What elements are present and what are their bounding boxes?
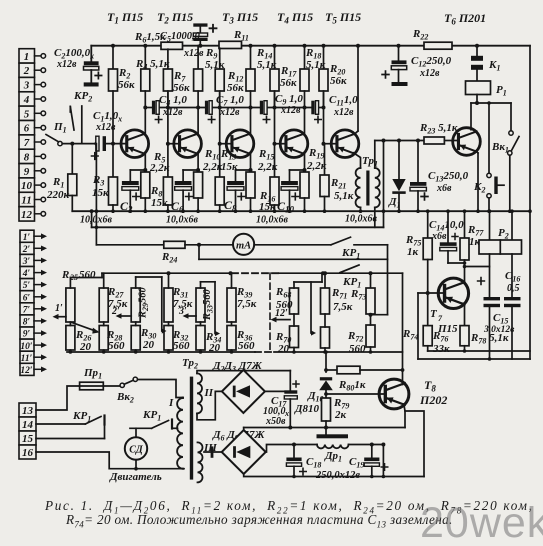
capacitor C16 0.5 xyxy=(511,254,513,297)
resistor R70 20 xyxy=(290,326,299,348)
diode D1 xyxy=(398,141,400,180)
resistor R27 7,5к xyxy=(99,288,108,322)
svg-text:Д2Д3 Д7Ж: Д2Д3 Д7Ж xyxy=(212,360,263,374)
svg-text:Др1: Др1 xyxy=(324,450,342,464)
caption line 2 xyxy=(66,512,453,530)
wire: T7 collector xyxy=(464,260,466,283)
motor SD xyxy=(135,428,137,437)
svg-text:II: II xyxy=(204,387,214,399)
svg-text:Вк2: Вк2 xyxy=(116,391,134,405)
wire: emitter xyxy=(304,154,306,170)
svg-text:Т3 П15: Т3 П15 xyxy=(222,10,258,26)
svg-text:х6в: х6в xyxy=(431,231,447,242)
wire: matrix bottom bus xyxy=(67,351,255,353)
svg-text:C15: C15 xyxy=(493,312,508,326)
svg-text:10: 10 xyxy=(21,180,33,192)
resistor R18 5,1к xyxy=(304,46,306,69)
wire: bridge III top to filter line xyxy=(243,428,245,431)
wire: meter to KP1 contact xyxy=(254,244,331,246)
wire: II winding bottom to bridge left xyxy=(197,391,222,419)
svg-text:3′: 3′ xyxy=(22,257,31,267)
node: base divider T1 xyxy=(111,142,115,146)
Tr2 secondary II xyxy=(197,373,202,413)
wire: R24 to meter xyxy=(185,244,233,246)
wire: T6 collector xyxy=(470,103,472,130)
svg-text:C19: C19 xyxy=(349,456,364,470)
svg-text:C51000,0: C51000,0 xyxy=(160,31,201,44)
svg-text:13: 13 xyxy=(22,405,34,417)
svg-text:КР1: КР1 xyxy=(142,409,161,423)
wire: emitter xyxy=(250,154,252,170)
wire: T5 emitter to Tr1 primary xyxy=(354,153,361,168)
capacitor C17 100.0x50v xyxy=(289,371,291,391)
wire: terminal 16 to motor return xyxy=(36,452,184,469)
svg-text:R11: R11 xyxy=(233,29,249,43)
svg-text:5,1к: 5,1к xyxy=(205,59,225,71)
wire: right border xyxy=(529,46,531,359)
svg-text:К1: К1 xyxy=(488,59,500,73)
contact K2 xyxy=(488,103,490,173)
capacitor C14 10.0x6v xyxy=(447,211,449,242)
svg-text:4′: 4′ xyxy=(22,269,31,279)
svg-text:3,0х12в: 3,0х12в xyxy=(483,325,515,335)
svg-text:7: 7 xyxy=(438,314,443,323)
svg-text:Т6 П201: Т6 П201 xyxy=(444,11,486,27)
svg-text:Д810: Д810 xyxy=(294,403,320,415)
svg-text:15к: 15к xyxy=(221,161,238,173)
wire: R69 zigzag tap to R72 xyxy=(310,282,312,333)
choke Dr1 xyxy=(317,434,349,438)
wire: R29 zigzag tap xyxy=(135,277,137,288)
svg-text:2: 2 xyxy=(23,65,30,77)
resistor R33 560 xyxy=(196,288,205,322)
capacitor C15 3.0x12v xyxy=(489,254,491,297)
svg-text:0,5: 0,5 xyxy=(507,283,520,294)
svg-text:3: 3 xyxy=(23,80,30,92)
svg-text:560: 560 xyxy=(238,340,255,352)
zener D10 D810 xyxy=(325,352,327,372)
svg-text:C7 1,0: C7 1,0 xyxy=(216,94,244,108)
resistor R23 5.1k xyxy=(424,137,444,144)
wire: Vk2 to Tr2 primary xyxy=(138,380,183,398)
resistor R22 xyxy=(424,42,452,49)
resistor R25 560 xyxy=(66,288,75,322)
svg-text:2,2к: 2,2к xyxy=(257,161,278,173)
svg-text:1′: 1′ xyxy=(23,233,31,243)
wire: emitter bypass branch xyxy=(290,169,305,171)
svg-text:C6: C6 xyxy=(171,199,184,215)
svg-text:8: 8 xyxy=(24,151,30,163)
svg-text:Р2: Р2 xyxy=(498,227,509,241)
wire: long rail 2 xyxy=(92,226,384,228)
resistor R36 560 xyxy=(227,326,236,351)
svg-text:П15: П15 xyxy=(437,323,458,335)
svg-text:56к: 56к xyxy=(280,77,297,89)
capacitor C2 xyxy=(54,47,102,87)
tap 12' xyxy=(276,319,290,321)
wire: meter feed drop xyxy=(95,144,97,245)
svg-text:560: 560 xyxy=(349,343,366,355)
svg-text:10′: 10′ xyxy=(20,342,33,352)
wire: collector xyxy=(144,91,146,134)
svg-text:C12250,0: C12250,0 xyxy=(411,55,452,69)
svg-text:8′: 8′ xyxy=(23,318,31,328)
relay contact K1 xyxy=(476,46,478,57)
svg-text:Т1 П15: Т1 П15 xyxy=(107,10,143,26)
capacitor C13 250.0x6v xyxy=(417,141,419,183)
wire: choke output xyxy=(349,444,384,446)
svg-text:7: 7 xyxy=(24,137,30,149)
wire: P1 bottom node xyxy=(476,95,478,104)
svg-text:6′: 6′ xyxy=(23,293,31,303)
resistor R76 33k xyxy=(427,293,429,326)
resistor R79 2k xyxy=(322,398,331,421)
transistor T5 P15 xyxy=(331,130,359,158)
transistor T2 P15 xyxy=(174,130,202,158)
wire: R33 zigzag tap xyxy=(200,282,202,288)
caption line 1 xyxy=(45,498,534,516)
dashed block boundary xyxy=(269,273,271,352)
svg-text:КР2: КР2 xyxy=(73,90,92,104)
svg-text:К2: К2 xyxy=(473,181,485,195)
transistor T3 P15 xyxy=(226,130,254,158)
svg-text:14: 14 xyxy=(22,419,34,431)
resistor R12 56к xyxy=(219,48,221,69)
tap 2' xyxy=(121,315,131,317)
wire: R69 top link xyxy=(293,282,295,288)
wire: lower measurement bus xyxy=(198,245,200,259)
svg-text:R21: R21 xyxy=(330,177,346,191)
wire: T7 emitter to R78 xyxy=(463,304,465,306)
resistor R7 56к xyxy=(167,49,169,69)
wire: T8 emitter xyxy=(404,404,405,428)
svg-text:2,2к: 2,2к xyxy=(306,160,327,172)
svg-text:СД: СД xyxy=(129,445,144,456)
svg-text:R19: R19 xyxy=(308,147,324,161)
svg-text:15к: 15к xyxy=(259,201,276,213)
svg-text:5′: 5′ xyxy=(23,281,31,291)
svg-text:R74: R74 xyxy=(402,328,418,342)
svg-text:5,1к: 5,1к xyxy=(306,59,326,71)
wire: base xyxy=(168,143,178,145)
resistor R8 15к xyxy=(167,144,169,177)
wire: emitter xyxy=(197,154,199,170)
wire: T7 bottom bus xyxy=(428,350,530,352)
wire: link down to measurement bus xyxy=(387,245,389,315)
resistor R14 5,1к xyxy=(250,46,252,69)
svg-text:х12в: х12в xyxy=(56,59,77,70)
svg-text:20: 20 xyxy=(208,342,221,354)
svg-text:R23 5,1к: R23 5,1к xyxy=(419,122,458,136)
watermark xyxy=(420,499,543,546)
svg-text:Т4 П15: Т4 П15 xyxy=(277,10,313,26)
svg-text:7,5к: 7,5к xyxy=(237,298,257,310)
resistor R9 5,1к xyxy=(197,46,199,69)
resistor R28 560 xyxy=(99,326,108,351)
svg-text:11: 11 xyxy=(21,195,31,207)
svg-text:5: 5 xyxy=(24,108,30,120)
capacitor C7 1.0x12v xyxy=(205,101,208,115)
resistor R4 5,1к xyxy=(144,46,146,69)
resistor R34 20 xyxy=(196,326,205,351)
wire: base xyxy=(275,143,285,145)
wire: emitter bypass branch xyxy=(130,169,145,171)
resistor R72 560 xyxy=(321,327,330,348)
svg-text:56к: 56к xyxy=(330,75,347,87)
wire: collector xyxy=(197,91,199,134)
connector X2 terminals 1'-12' xyxy=(20,230,34,375)
svg-text:10,0х6в: 10,0х6в xyxy=(256,215,289,226)
svg-text:П202: П202 xyxy=(419,393,447,407)
Tr2 core xyxy=(190,377,193,480)
wire: collector xyxy=(250,91,252,134)
Tr2 secondary III xyxy=(198,442,203,482)
wire: input line to C1 xyxy=(62,143,95,145)
svg-text:х50в: х50в xyxy=(265,416,286,427)
wire: Tr1 primary bottom to rail1 xyxy=(360,207,362,211)
resistor R16 15к xyxy=(274,144,276,177)
svg-text:20: 20 xyxy=(79,341,92,353)
svg-text:тА: тА xyxy=(236,240,251,251)
rail junction nodes xyxy=(111,44,115,48)
svg-text:х12в: х12в xyxy=(280,105,301,116)
resistor R21 5.1k (T5 base divider) xyxy=(324,144,326,175)
resistor R69 560 xyxy=(290,288,299,314)
capacitor C6 10.0x6v xyxy=(175,181,192,185)
svg-text:C10: C10 xyxy=(277,199,295,215)
wire: regulator node line xyxy=(244,427,405,429)
capacitor C12 250.0x12v xyxy=(398,46,400,61)
capacitor C8 10.0x6v xyxy=(227,181,244,185)
svg-text:4: 4 xyxy=(23,94,30,106)
resistor R11 xyxy=(219,41,242,48)
resistor R13 15к xyxy=(219,144,221,177)
svg-text:2к: 2к xyxy=(334,409,347,421)
wire: matrix top bus dashed section xyxy=(232,272,279,274)
wire: lower return bus xyxy=(418,358,530,360)
wire: base xyxy=(220,143,231,145)
wire: C2 top stub xyxy=(90,46,92,62)
resistor R31 7,5к xyxy=(164,288,173,322)
transistor T6 P201 xyxy=(453,128,481,156)
capacitor C18 xyxy=(293,445,295,458)
svg-text:R: R xyxy=(61,269,69,281)
svg-text:C13250,0: C13250,0 xyxy=(428,170,469,184)
svg-text:I: I xyxy=(168,397,174,409)
resistor R74 xyxy=(366,325,375,347)
svg-text:10,0х6в: 10,0х6в xyxy=(345,214,378,225)
wire: T6 emitter xyxy=(476,151,478,153)
wire: R73/R74 node to KP1 riser xyxy=(369,313,373,317)
svg-text:R29560: R29560 xyxy=(138,286,151,319)
resistor R10 2,2к xyxy=(197,170,199,172)
svg-text:15к: 15к xyxy=(92,187,109,199)
tap 1' xyxy=(58,316,66,318)
svg-text:33к: 33к xyxy=(432,343,450,355)
wire: II winding top to C17 xyxy=(197,371,290,374)
capacitor C4 1.0x12v xyxy=(152,101,155,115)
svg-text:Вк1: Вк1 xyxy=(491,141,509,155)
tap 3' xyxy=(188,315,196,317)
wire: T5 collector to rail xyxy=(357,46,359,131)
svg-text:R72: R72 xyxy=(347,330,363,344)
svg-text:2′: 2′ xyxy=(22,245,31,255)
wire: rail2 riser xyxy=(383,141,385,228)
resistor R39 7,5к xyxy=(227,288,236,322)
resistor R20 56к xyxy=(323,46,325,69)
wire: T8 base xyxy=(326,393,384,395)
wire: Tr1 secondary bottom to rail2 xyxy=(374,207,376,227)
svg-text:R4 5,1к: R4 5,1к xyxy=(135,58,170,72)
svg-text:560: 560 xyxy=(108,340,125,352)
svg-text:C18: C18 xyxy=(306,456,321,470)
capacitor C10 10.0x6v xyxy=(281,181,298,185)
svg-text:560: 560 xyxy=(79,269,96,281)
svg-text:1: 1 xyxy=(24,51,30,63)
switch Vk2 xyxy=(103,385,120,387)
capacitor C19 xyxy=(371,445,373,458)
wire: base xyxy=(324,143,336,145)
connector X1 terminals 1-12 xyxy=(19,49,35,221)
wire: supply top rail xyxy=(91,45,530,47)
resistor R6 1.5k xyxy=(161,42,183,49)
resistor R80 1k xyxy=(326,369,337,371)
svg-text:Т8: Т8 xyxy=(424,378,436,394)
svg-text:5,1к: 5,1к xyxy=(334,190,354,202)
svg-text:Тр2: Тр2 xyxy=(182,357,198,371)
resistor R5 2,2к xyxy=(144,170,146,172)
relay coil P2 xyxy=(489,211,491,240)
svg-text:R801к: R801к xyxy=(338,379,366,393)
svg-text:Т: Т xyxy=(430,308,438,320)
wire: T8 collector riser xyxy=(402,273,404,384)
capacitor C3 10.0x6v xyxy=(122,181,139,185)
wire: rail1-rail2 link xyxy=(91,211,93,227)
svg-text:R3: R3 xyxy=(92,174,104,188)
svg-text:R1: R1 xyxy=(52,176,64,190)
resistor R30 20 xyxy=(131,326,140,351)
svg-text:560: 560 xyxy=(276,299,293,311)
svg-text:х12в: х12в xyxy=(419,68,440,79)
svg-text:7,5к: 7,5к xyxy=(108,298,128,310)
svg-text:R71: R71 xyxy=(331,287,347,301)
wire: common rail 1 (emitter/ground rail) xyxy=(72,210,530,212)
svg-text:R24: R24 xyxy=(161,251,177,265)
resistor R26 20 xyxy=(66,326,75,351)
svg-text:250,0х12в: 250,0х12в xyxy=(315,470,360,481)
transistor T8 P202 xyxy=(379,379,409,409)
svg-text:9′: 9′ xyxy=(23,330,31,340)
fuse Pr1 xyxy=(80,382,104,390)
switch Vk1 xyxy=(510,103,512,131)
transistor T7 P15 xyxy=(438,278,468,308)
switch contact KP1 (meter line) xyxy=(331,237,351,245)
wire: T7 left return xyxy=(417,293,419,359)
svg-text:КР1: КР1 xyxy=(72,410,91,424)
resistor R75 1k xyxy=(427,211,429,238)
svg-text:16: 16 xyxy=(22,447,34,459)
wire: III winding to bridge left with diode bar xyxy=(204,451,222,453)
switch contact KP1 (top bus) xyxy=(340,265,359,273)
svg-text:Двигатель: Двигатель xyxy=(109,471,162,483)
resistor R17 56к xyxy=(274,46,276,69)
connector X3 terminals 13-16 xyxy=(19,403,36,459)
switch P1 (input) xyxy=(46,121,67,146)
svg-text:х6в: х6в xyxy=(436,183,452,194)
capacitor C9 1.0x12v xyxy=(260,101,263,115)
switch KP2 xyxy=(70,90,92,144)
svg-text:12′: 12′ xyxy=(20,366,33,376)
wire: filter drop xyxy=(382,445,384,477)
resistor R32 560 xyxy=(164,326,173,351)
svg-text:х12в: х12в xyxy=(162,107,183,118)
resistor R29 560 xyxy=(131,288,140,322)
svg-text:R13: R13 xyxy=(220,148,236,162)
svg-text:7′: 7′ xyxy=(23,305,31,315)
svg-text:9: 9 xyxy=(24,166,30,178)
resistor R19 2,2к xyxy=(304,170,306,172)
svg-text:7,5к: 7,5к xyxy=(173,298,193,310)
wire: R25 top link xyxy=(69,278,71,289)
wire: Tr1 secondary top xyxy=(374,141,376,169)
svg-text:6: 6 xyxy=(24,123,30,135)
svg-text:Пр1: Пр1 xyxy=(83,367,102,381)
svg-text:х12в: х12в xyxy=(183,48,204,59)
svg-text:C4 1,0: C4 1,0 xyxy=(159,94,187,108)
svg-text:15к: 15к xyxy=(151,197,168,209)
capacitor C1 xyxy=(92,110,123,159)
wire: emitter bypass branch xyxy=(236,169,251,171)
svg-text:П1: П1 xyxy=(53,121,67,135)
svg-text:20: 20 xyxy=(277,343,290,355)
svg-text:2,2к: 2,2к xyxy=(149,162,170,174)
wire: rectifier III output xyxy=(266,445,317,453)
svg-text:12: 12 xyxy=(21,209,33,221)
wire: T7 base xyxy=(418,292,444,294)
svg-text:Т2 П15: Т2 П15 xyxy=(157,10,193,26)
wire: bottom return xyxy=(244,474,424,477)
svg-text:C111,0: C111,0 xyxy=(329,94,358,108)
resistor R24 xyxy=(96,244,163,246)
svg-text:5,1к: 5,1к xyxy=(257,59,277,71)
Tr2 primary I xyxy=(177,398,183,469)
wire: C1 to T1 base xyxy=(106,143,125,145)
svg-text:560: 560 xyxy=(173,340,190,352)
svg-text:25: 25 xyxy=(69,273,78,282)
resistor R1 220k xyxy=(46,142,77,212)
wire: matrix top bus xyxy=(102,272,231,274)
svg-text:56к: 56к xyxy=(118,79,135,91)
svg-text:220к: 220к xyxy=(46,189,70,201)
svg-text:х12в: х12в xyxy=(219,107,240,118)
svg-text:56к: 56к xyxy=(173,82,190,94)
relay coil P1 xyxy=(466,81,491,95)
resistor R2 56к xyxy=(112,46,114,69)
wire: emitter xyxy=(144,154,146,170)
svg-text:15: 15 xyxy=(22,433,34,445)
capacitor C11 1.0x12v xyxy=(311,101,314,115)
svg-text:R22: R22 xyxy=(412,28,428,42)
svg-text:7,5к: 7,5к xyxy=(333,301,353,313)
wire: R25-R28 diagonal tap xyxy=(72,323,97,332)
resistor R3 15к xyxy=(112,144,114,177)
svg-text:1′: 1′ xyxy=(55,303,63,314)
svg-text:R33560: R33560 xyxy=(202,288,215,321)
node: R24 feed junction xyxy=(94,142,98,146)
svg-text:Р1: Р1 xyxy=(496,84,507,98)
resistor R71 7.5k xyxy=(324,273,326,288)
wire: terminal 13 lead xyxy=(36,386,80,410)
